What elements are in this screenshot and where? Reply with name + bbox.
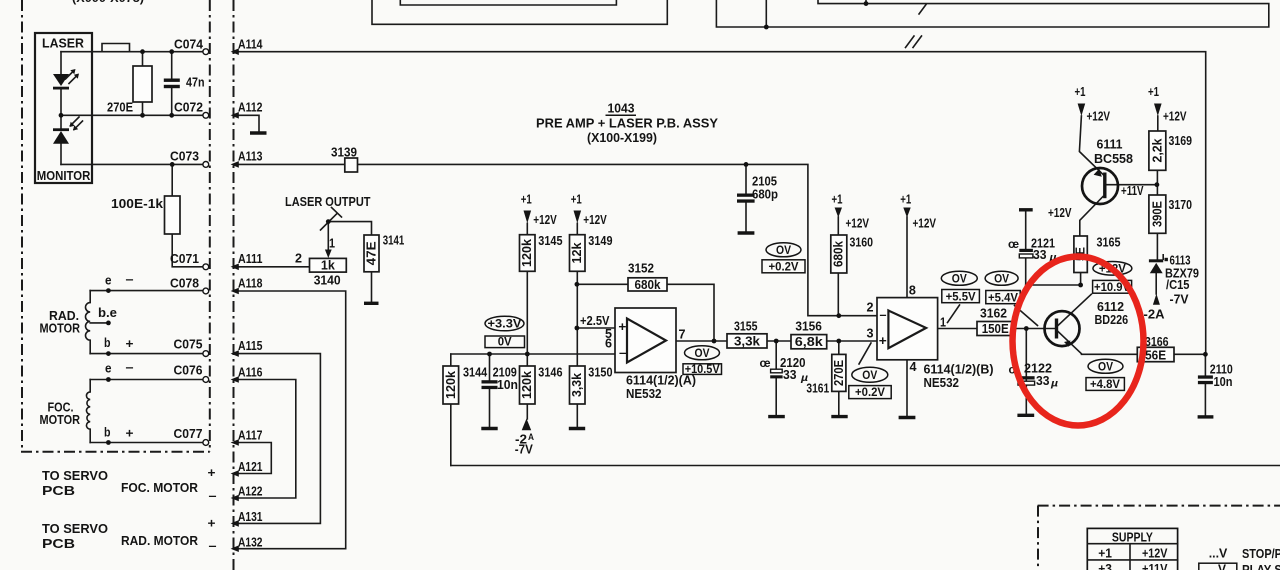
svg-text:3150: 3150: [588, 366, 612, 380]
svg-text:–: –: [126, 273, 134, 287]
svg-text:-7V: -7V: [1170, 293, 1190, 307]
svg-text:3146: 3146: [538, 366, 562, 380]
svg-text:680p: 680p: [752, 188, 778, 202]
svg-text:C073: C073: [170, 150, 199, 164]
svg-text:47E: 47E: [365, 241, 379, 265]
svg-text:3152: 3152: [628, 262, 654, 276]
svg-text:/C15: /C15: [1166, 278, 1190, 292]
svg-text:3149: 3149: [588, 234, 612, 248]
svg-text:+11V: +11V: [1121, 184, 1144, 198]
svg-text:2,2k: 2,2k: [1150, 138, 1164, 162]
svg-text:10n: 10n: [497, 378, 518, 392]
svg-text:A121: A121: [238, 460, 263, 474]
svg-text:120k: 120k: [520, 371, 534, 399]
svg-text:...V: ...V: [1209, 547, 1228, 561]
svg-text:FOC. MOTOR: FOC. MOTOR: [121, 481, 198, 495]
svg-text:–: –: [209, 489, 217, 503]
svg-text:3170: 3170: [1169, 198, 1193, 212]
svg-text:A132: A132: [238, 536, 263, 550]
svg-text:–: –: [619, 345, 627, 360]
svg-text:3139: 3139: [331, 146, 357, 160]
svg-text:+: +: [208, 517, 216, 531]
svg-text:V: V: [1218, 563, 1227, 570]
svg-text:–: –: [880, 308, 887, 322]
svg-text:OV: OV: [952, 274, 967, 286]
svg-text:+12V: +12V: [1142, 546, 1168, 560]
svg-text:3165: 3165: [1097, 236, 1121, 250]
svg-text:+5.5V: +5.5V: [946, 292, 976, 304]
svg-text:+12V: +12V: [1163, 110, 1187, 124]
svg-text:OV: OV: [695, 348, 710, 360]
svg-text:LASER OUTPUT: LASER OUTPUT: [285, 195, 371, 209]
svg-text:TO SERVO: TO SERVO: [42, 522, 108, 536]
svg-text:3144: 3144: [463, 366, 487, 380]
svg-text:PCB: PCB: [42, 484, 75, 498]
svg-text:1: 1: [329, 237, 335, 251]
svg-text:SUPPLY: SUPPLY: [1112, 531, 1154, 545]
svg-text:b.e: b.e: [98, 306, 117, 320]
svg-text:+12V: +12V: [583, 213, 607, 227]
svg-text:33: 33: [783, 368, 797, 382]
svg-text:+: +: [618, 319, 626, 334]
svg-text:C077: C077: [174, 427, 203, 441]
svg-text:+12V: +12V: [1048, 206, 1072, 220]
svg-text:œ: œ: [1008, 239, 1019, 251]
svg-text:A111: A111: [238, 252, 263, 266]
svg-text:+1: +1: [1098, 546, 1112, 560]
svg-text:1043: 1043: [608, 102, 635, 116]
svg-text:1: 1: [940, 316, 946, 330]
svg-text:OV: OV: [994, 274, 1009, 286]
svg-text:6113: 6113: [1170, 254, 1191, 268]
svg-text:100E-1k: 100E-1k: [111, 197, 163, 211]
svg-text:+10.5V: +10.5V: [685, 364, 720, 376]
svg-text:+3.3V: +3.3V: [488, 319, 522, 331]
svg-text:A131: A131: [238, 510, 263, 524]
svg-text:C078: C078: [170, 277, 199, 291]
svg-text:680k: 680k: [832, 241, 846, 267]
svg-text:OV: OV: [862, 370, 877, 382]
svg-text:8: 8: [909, 284, 916, 298]
svg-text:e: e: [105, 274, 112, 288]
svg-text:MONITOR: MONITOR: [37, 169, 91, 183]
svg-text:3166: 3166: [1145, 335, 1169, 349]
svg-text:+: +: [208, 466, 216, 480]
svg-text:A112: A112: [238, 101, 263, 115]
svg-text:47n: 47n: [186, 76, 205, 90]
svg-text:NE532: NE532: [626, 387, 662, 401]
svg-text:A113: A113: [238, 150, 263, 164]
svg-text:b: b: [104, 426, 111, 440]
svg-text:A116: A116: [238, 366, 263, 380]
svg-text:C074: C074: [174, 37, 203, 51]
svg-text:A122: A122: [238, 485, 263, 499]
svg-text:2105: 2105: [752, 175, 777, 189]
svg-text:OV: OV: [776, 245, 791, 257]
svg-text:+: +: [126, 337, 134, 351]
svg-text:+12V: +12V: [913, 217, 937, 231]
svg-text:3169: 3169: [1169, 134, 1193, 148]
svg-text:3145: 3145: [538, 234, 562, 248]
svg-text:+1: +1: [1075, 85, 1086, 99]
svg-text:LASER: LASER: [42, 37, 84, 51]
svg-text:–: –: [209, 539, 217, 553]
svg-text:PRE AMP + LASER P.B. ASSY: PRE AMP + LASER P.B. ASSY: [536, 117, 719, 131]
svg-text:-2A: -2A: [1144, 308, 1165, 322]
svg-text:C072: C072: [174, 101, 203, 115]
svg-text:12k: 12k: [570, 242, 584, 263]
svg-text:–: –: [126, 361, 134, 375]
svg-text:A115: A115: [238, 339, 263, 353]
svg-text:PLAY S: PLAY S: [1242, 563, 1280, 570]
svg-text:PCB: PCB: [42, 537, 75, 551]
svg-text:OV: OV: [1098, 362, 1113, 374]
svg-text:(X100-X199): (X100-X199): [587, 131, 657, 145]
svg-text:+1: +1: [832, 193, 843, 207]
svg-text:3,3k: 3,3k: [734, 335, 760, 349]
svg-text:+1: +1: [1148, 85, 1159, 99]
svg-text:-7V: -7V: [515, 443, 534, 457]
svg-text:MOTOR: MOTOR: [40, 413, 81, 427]
svg-text:6,8k: 6,8k: [795, 335, 823, 349]
svg-text:1k: 1k: [321, 259, 335, 273]
svg-text:7: 7: [679, 328, 686, 342]
svg-text:+5.4V: +5.4V: [988, 293, 1018, 305]
svg-text:56E: 56E: [1145, 348, 1166, 362]
svg-text:BD226: BD226: [1095, 313, 1129, 327]
svg-text:3155: 3155: [734, 320, 758, 334]
svg-text:+12V: +12V: [533, 213, 557, 227]
svg-text:A: A: [528, 432, 534, 442]
svg-text:3162: 3162: [980, 307, 1007, 321]
svg-text:3160: 3160: [850, 236, 874, 250]
svg-text:(X000-X075): (X000-X075): [72, 0, 144, 5]
svg-text:+12V: +12V: [1087, 110, 1111, 124]
svg-text:TO SERVO: TO SERVO: [42, 469, 108, 483]
svg-text:6: 6: [605, 337, 612, 351]
svg-text:120k: 120k: [444, 371, 458, 399]
svg-text:STOP/P: STOP/P: [1242, 547, 1280, 561]
svg-text:œ: œ: [760, 358, 771, 370]
svg-text:µ: µ: [1050, 378, 1058, 390]
svg-text:4: 4: [910, 360, 917, 374]
svg-text:2: 2: [867, 301, 874, 315]
svg-text:3161: 3161: [806, 382, 829, 396]
svg-text:A118: A118: [238, 277, 263, 291]
svg-text:3: 3: [867, 327, 874, 341]
svg-text:+3: +3: [1098, 562, 1112, 570]
svg-text:b: b: [104, 336, 111, 350]
svg-text:+1: +1: [571, 193, 582, 207]
svg-text:BC558: BC558: [1094, 152, 1133, 166]
svg-text:3140: 3140: [314, 274, 341, 288]
svg-text:NE532: NE532: [924, 376, 960, 390]
svg-text:3,3k: 3,3k: [570, 373, 584, 397]
svg-text:150E: 150E: [982, 322, 1009, 336]
svg-text:+0.2V: +0.2V: [855, 387, 885, 399]
svg-text:+: +: [126, 427, 134, 441]
svg-text:e: e: [105, 362, 112, 376]
svg-text:2: 2: [295, 252, 302, 266]
svg-text:C075: C075: [174, 338, 203, 352]
svg-text:390E: 390E: [1150, 201, 1164, 227]
svg-text:6111: 6111: [1097, 138, 1123, 152]
svg-text:RAD. MOTOR: RAD. MOTOR: [121, 534, 198, 548]
svg-text:680k: 680k: [635, 278, 661, 292]
svg-text:6114(1/2)(B): 6114(1/2)(B): [924, 363, 994, 377]
svg-text:270E: 270E: [832, 360, 846, 386]
svg-text:+4.8V: +4.8V: [1090, 379, 1120, 391]
svg-text:+11V: +11V: [1142, 562, 1168, 570]
svg-text:A117: A117: [238, 429, 263, 443]
svg-text:+1: +1: [521, 193, 532, 207]
svg-text:120k: 120k: [520, 239, 534, 267]
svg-text:+: +: [879, 334, 887, 348]
svg-text:33: 33: [1033, 248, 1047, 262]
svg-text:A114: A114: [238, 37, 263, 51]
svg-text:+0.2V: +0.2V: [769, 262, 799, 274]
svg-text:3141: 3141: [383, 234, 405, 248]
svg-text:C071: C071: [170, 252, 199, 266]
svg-text:10n: 10n: [1214, 375, 1233, 389]
svg-text:C076: C076: [174, 364, 203, 378]
svg-text:0V: 0V: [498, 337, 512, 349]
svg-text:3156: 3156: [795, 320, 822, 334]
svg-text:33: 33: [1036, 374, 1050, 388]
svg-text:+1: +1: [900, 193, 911, 207]
svg-text:6112: 6112: [1097, 300, 1124, 314]
svg-text:+12V: +12V: [846, 217, 870, 231]
svg-text:MOTOR: MOTOR: [40, 322, 81, 336]
svg-text:270E: 270E: [107, 101, 133, 115]
